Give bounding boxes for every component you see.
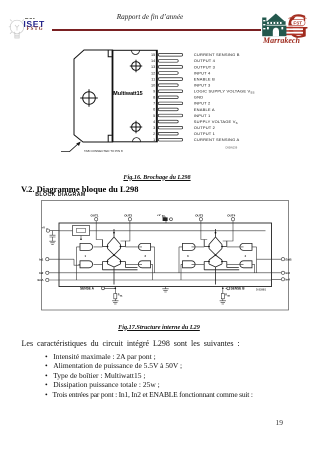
svg-text:GND: GND: [194, 95, 204, 100]
svg-text:6: 6: [153, 108, 155, 112]
svg-text:4: 4: [153, 120, 155, 124]
svg-text:11: 11: [151, 77, 155, 81]
svg-text:OUTPUT 4: OUTPUT 4: [194, 58, 216, 63]
svg-text:TAB CONNECTED TO PIN 8: TAB CONNECTED TO PIN 8: [84, 149, 123, 153]
svg-text:OUTPUT 3: OUTPUT 3: [194, 64, 216, 69]
svg-text:13: 13: [151, 65, 155, 69]
svg-text:10: 10: [151, 83, 155, 87]
svg-text:INPUT 4: INPUT 4: [194, 70, 211, 75]
svg-text:12: 12: [151, 71, 155, 75]
svg-text:8: 8: [153, 96, 155, 100]
svg-text:D95IN239: D95IN239: [226, 145, 238, 149]
svg-text:LOGIC SUPPLY VOLTAGE VSS: LOGIC SUPPLY VOLTAGE VSS: [194, 89, 255, 95]
svg-text:ENABLE B: ENABLE B: [194, 76, 215, 81]
svg-text:OUTPUT 1: OUTPUT 1: [194, 131, 216, 136]
svg-text:+V: +V: [42, 226, 46, 230]
svg-text:ENABLE A: ENABLE A: [194, 107, 215, 112]
svg-text:OUT1: OUT1: [91, 214, 99, 218]
svg-text:OUT3: OUT3: [195, 214, 203, 218]
svg-text:SENSE B: SENSE B: [231, 287, 246, 291]
svg-text:CURRENT SENSING B: CURRENT SENSING B: [194, 52, 240, 57]
svg-text:1: 1: [153, 138, 155, 142]
svg-text:SENSE A: SENSE A: [80, 287, 95, 291]
svg-text:5: 5: [153, 114, 155, 118]
svg-text:In3: In3: [286, 271, 291, 275]
svg-text:In1: In1: [39, 257, 44, 261]
svg-text:7: 7: [153, 102, 155, 106]
svg-text:3: 3: [153, 126, 155, 130]
svg-text:SA: SA: [120, 294, 123, 297]
svg-text:SB: SB: [227, 295, 230, 297]
svg-text:2: 2: [153, 132, 155, 136]
svg-text:In4: In4: [286, 278, 291, 282]
svg-text:OUT4: OUT4: [227, 214, 235, 218]
svg-text:3: 3: [187, 254, 189, 258]
svg-text:EnB: EnB: [286, 257, 293, 261]
svg-text:OUTPUT 2: OUTPUT 2: [194, 125, 216, 130]
svg-text:In2: In2: [39, 271, 44, 275]
svg-text:14: 14: [151, 59, 155, 63]
svg-text:SUPPLY VOLTAGE VS: SUPPLY VOLTAGE VS: [194, 119, 238, 125]
svg-text:4: 4: [245, 254, 247, 258]
svg-text:D-S298/1: D-S298/1: [256, 289, 267, 292]
svg-text:9: 9: [153, 89, 155, 93]
svg-text:FST: FST: [293, 21, 302, 26]
svg-text:1: 1: [85, 254, 87, 258]
svg-text:CURRENT SENSING A: CURRENT SENSING A: [194, 137, 240, 142]
svg-text:+V: +V: [157, 213, 161, 217]
svg-text:Multiwatt15: Multiwatt15: [113, 91, 142, 97]
svg-text:INPUT 3: INPUT 3: [194, 83, 211, 88]
svg-text:OUT2: OUT2: [124, 214, 132, 218]
svg-text:15: 15: [151, 53, 155, 57]
svg-text:2: 2: [145, 254, 147, 258]
svg-text:INPUT 1: INPUT 1: [194, 113, 211, 118]
svg-text:EnA: EnA: [38, 278, 45, 282]
svg-text:INPUT 2: INPUT 2: [194, 101, 211, 106]
